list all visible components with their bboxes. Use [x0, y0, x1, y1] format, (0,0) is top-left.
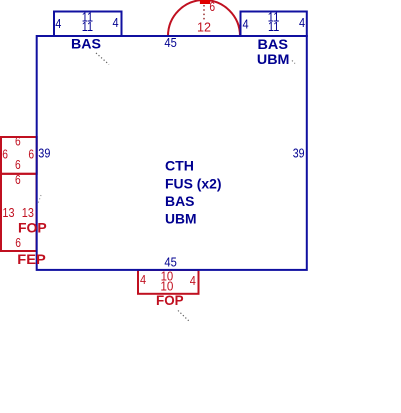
svg-text:39: 39	[38, 145, 50, 160]
bottom FOP bump rect 10x4	[138, 270, 199, 294]
svg-text:4: 4	[243, 17, 249, 32]
leader dots from top-left BAS	[96, 53, 109, 65]
leader dots near top-right UBM	[292, 61, 295, 64]
dotted radius line	[203, 5, 205, 22]
svg-text:CTH: CTH	[165, 159, 194, 174]
semicircle bay radius 6	[168, 0, 240, 36]
svg-text:45: 45	[164, 35, 176, 50]
leader dots from bottom FOP	[178, 311, 190, 322]
apex vertex marker square	[200, 0, 210, 4]
svg-text:BAS: BAS	[71, 37, 101, 52]
svg-text:BAS: BAS	[165, 194, 195, 209]
svg-text:11: 11	[82, 19, 93, 34]
svg-text:FEP: FEP	[17, 252, 45, 267]
svg-text:4: 4	[55, 16, 61, 31]
svg-text:6: 6	[15, 134, 21, 149]
svg-text:6: 6	[28, 146, 34, 161]
svg-text:4: 4	[140, 272, 146, 287]
svg-text:11: 11	[268, 19, 279, 34]
svg-text:FOP: FOP	[156, 293, 184, 308]
svg-text:6: 6	[15, 157, 21, 172]
svg-text:12: 12	[197, 19, 211, 34]
svg-text:13: 13	[2, 205, 14, 220]
svg-text:FUS (x2): FUS (x2)	[165, 176, 222, 191]
left FEP square 6x6	[1, 137, 37, 174]
main building outline BAS 45x39	[37, 36, 307, 270]
svg-text:UBM: UBM	[257, 52, 290, 67]
svg-text:6: 6	[2, 146, 8, 161]
svg-text:UBM: UBM	[165, 211, 197, 226]
top-right bump-out rect 11x4	[241, 12, 307, 37]
svg-text:39: 39	[293, 145, 305, 160]
svg-text:6: 6	[209, 0, 215, 14]
top-left bump-out rect 11x4	[54, 12, 122, 37]
leader dots left FOP	[38, 195, 42, 205]
svg-text:13: 13	[22, 205, 34, 220]
left FOP rect 6x13	[1, 174, 37, 251]
svg-text:4: 4	[299, 15, 305, 30]
svg-text:4: 4	[113, 15, 119, 30]
svg-text:6: 6	[15, 235, 21, 250]
svg-text:4: 4	[190, 273, 196, 288]
svg-text:6: 6	[15, 172, 21, 187]
svg-text:BAS: BAS	[258, 37, 289, 52]
svg-text:10: 10	[160, 278, 173, 293]
svg-text:FOP: FOP	[18, 221, 47, 236]
